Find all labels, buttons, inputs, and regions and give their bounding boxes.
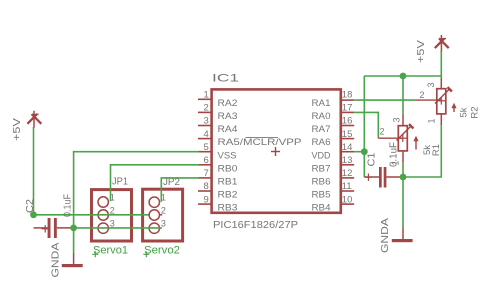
svg-text:5: 5 xyxy=(204,142,209,153)
svg-text:C1: C1 xyxy=(367,152,378,166)
svg-text:0.1uF: 0.1uF xyxy=(63,194,74,217)
svg-text:+5V: +5V xyxy=(416,40,427,63)
IC U1 box (IC1 PIC16F1826/27P) xyxy=(212,89,341,212)
IC1 pin 18 RA1 xyxy=(312,90,355,109)
wire RA1 to R2 wiper xyxy=(354,99,415,101)
wire +5V left vertical xyxy=(33,127,35,215)
IC1 pin 8 RB2 xyxy=(198,181,238,200)
svg-text:2: 2 xyxy=(419,90,424,100)
JP2 value label Servo2 xyxy=(143,245,180,258)
svg-text:RB1: RB1 xyxy=(218,177,238,188)
svg-text:3: 3 xyxy=(426,82,436,87)
svg-text:RB7: RB7 xyxy=(312,163,331,174)
svg-text:+5V: +5V xyxy=(12,118,23,141)
svg-text:C2: C2 xyxy=(25,199,36,213)
svg-text:4: 4 xyxy=(204,129,209,140)
ground symbol GNDA left xyxy=(62,253,83,267)
wire +5V right down xyxy=(440,51,442,78)
svg-text:RA1: RA1 xyxy=(312,98,331,109)
svg-text:Servo2: Servo2 xyxy=(144,245,180,257)
wire VDD stub xyxy=(354,151,364,153)
junction dot +5V right xyxy=(400,73,407,80)
svg-text:RA6: RA6 xyxy=(312,137,331,148)
wire VSS to ground junction xyxy=(74,152,199,228)
svg-text:18: 18 xyxy=(342,90,353,101)
trimmer resistor R1 xyxy=(378,115,418,163)
IC1 origin cross xyxy=(271,147,280,156)
wire RB0 to JP1 pin1 xyxy=(111,165,200,202)
IC1 pin 4 RA5/MCLR/VPP xyxy=(198,129,302,148)
junction dot GND right xyxy=(400,174,407,181)
IC1 pin 15 RA6 xyxy=(312,129,355,148)
IC1 pin 12 RB6 xyxy=(312,168,355,187)
svg-text:RB3: RB3 xyxy=(218,203,238,214)
svg-text:3: 3 xyxy=(204,116,209,127)
svg-text:RB5: RB5 xyxy=(312,190,331,201)
svg-text:11: 11 xyxy=(342,181,352,192)
junction dot GND left xyxy=(70,225,77,232)
svg-text:14: 14 xyxy=(342,142,353,153)
svg-text:GNDA: GNDA xyxy=(380,218,391,253)
svg-text:RA5/MCLR/VPP: RA5/MCLR/VPP xyxy=(218,137,302,148)
wire R2 pin1 down xyxy=(403,126,441,177)
svg-text:6: 6 xyxy=(204,155,209,166)
IC1 pin 17 RA0 xyxy=(312,103,355,122)
svg-text:RB0: RB0 xyxy=(218,163,238,174)
junction dot +5V left xyxy=(30,211,37,218)
svg-text:2: 2 xyxy=(379,127,384,137)
svg-text:1: 1 xyxy=(204,90,209,101)
IC1 pin 13 RB7 xyxy=(312,155,355,174)
JP2 pin circles xyxy=(149,193,166,234)
svg-text:1: 1 xyxy=(391,160,401,165)
wire GND net to servo pin3 row xyxy=(74,227,162,229)
IC1 pin 2 RA3 xyxy=(198,103,238,122)
svg-text:3: 3 xyxy=(392,117,402,122)
wire GND junction to ground right xyxy=(402,177,404,227)
svg-text:RA3: RA3 xyxy=(218,111,238,122)
svg-text:RA0: RA0 xyxy=(312,111,331,122)
IC1 pin 3 RA4 xyxy=(198,116,238,135)
svg-text:R2: R2 xyxy=(470,106,481,118)
IC1 pin 9 RB3 xyxy=(198,194,238,213)
svg-text:R1: R1 xyxy=(431,144,442,156)
wire VDD to C1 left xyxy=(363,152,365,177)
svg-text:1: 1 xyxy=(426,118,436,123)
wire +5V net to servo pin2 row xyxy=(34,214,150,216)
supply symbol +5V left xyxy=(27,111,41,128)
connector JP2 body xyxy=(143,189,183,241)
svg-text:PIC16F1826/27P: PIC16F1826/27P xyxy=(213,219,298,231)
svg-text:VSS: VSS xyxy=(218,150,237,161)
svg-text:Servo1: Servo1 xyxy=(93,245,128,257)
ground symbol GNDA right xyxy=(392,227,413,242)
svg-text:RA4: RA4 xyxy=(218,124,238,135)
capacitor C2 xyxy=(34,218,74,238)
wire +5V right horizontal xyxy=(364,75,441,77)
IC1 pin 16 RA7 xyxy=(312,116,355,135)
wire +5V to VDD xyxy=(363,76,365,152)
junction dot VDD xyxy=(361,148,368,155)
svg-text:2: 2 xyxy=(204,103,209,114)
svg-text:RA2: RA2 xyxy=(218,98,238,109)
IC1 pin 11 RB5 xyxy=(312,181,355,200)
svg-text:RB2: RB2 xyxy=(218,190,238,201)
svg-text:JP1: JP1 xyxy=(112,176,128,187)
svg-text:7: 7 xyxy=(204,168,209,179)
JP2 pin2 stub xyxy=(159,214,162,216)
svg-text:13: 13 xyxy=(342,155,353,166)
svg-text:RA7: RA7 xyxy=(312,124,331,135)
svg-text:IC1: IC1 xyxy=(212,73,239,85)
svg-text:VDD: VDD xyxy=(312,150,331,161)
wire RB1 to JP2 pin1 xyxy=(161,178,199,202)
IC1 pin 14 VDD xyxy=(312,142,355,161)
svg-text:17: 17 xyxy=(342,103,353,114)
wire RA0 to R1 wiper xyxy=(354,112,378,138)
svg-text:2: 2 xyxy=(161,206,166,216)
svg-text:RB6: RB6 xyxy=(312,177,331,188)
IC1 pin 5 VSS xyxy=(198,142,237,161)
svg-text:15: 15 xyxy=(342,129,353,140)
wire +5V to R1 pin3 xyxy=(402,76,404,115)
svg-text:12: 12 xyxy=(342,168,353,179)
connector JP1 (3-pin header) xyxy=(92,190,132,241)
IC1 pin 7 RB1 xyxy=(198,168,238,187)
svg-text:8: 8 xyxy=(204,181,209,192)
JP1 value label Servo1 xyxy=(92,245,128,258)
svg-text:5k: 5k xyxy=(459,107,470,117)
svg-text:GNDA: GNDA xyxy=(51,242,62,277)
IC1 pin 6 RB0 xyxy=(198,155,238,174)
wire R1 pin1 to GND junction xyxy=(402,163,404,177)
svg-text:9: 9 xyxy=(204,194,209,205)
wire ground left vertical xyxy=(73,228,75,253)
svg-text:10: 10 xyxy=(342,194,353,205)
capacitor C1 xyxy=(364,167,403,188)
trimmer resistor R2 xyxy=(415,78,456,126)
svg-text:16: 16 xyxy=(342,116,353,127)
supply symbol +5V right xyxy=(435,35,449,52)
IC1 pin 1 RA2 xyxy=(198,90,238,109)
svg-text:RB4: RB4 xyxy=(312,203,331,214)
IC1 pin 10 RB4 xyxy=(312,194,355,213)
